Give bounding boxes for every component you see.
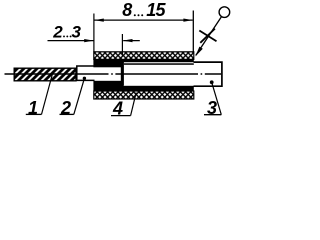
dimension text 2...3 xyxy=(52,22,81,41)
centerline (dash-dot axis) xyxy=(5,73,222,75)
extension line C (right, x=193.3) xyxy=(192,11,194,52)
svg-text:15: 15 xyxy=(146,0,166,20)
callout 3 xyxy=(204,80,221,117)
extension line B (x=122.4) xyxy=(121,34,123,56)
svg-text:3: 3 xyxy=(72,22,82,41)
tube wall black section top xyxy=(93,59,193,67)
tube 3 right exposed part xyxy=(194,62,222,86)
conductor end wall (thick bar) xyxy=(121,59,124,85)
extension line A (left, x=93.9) xyxy=(93,14,95,52)
svg-text:8: 8 xyxy=(122,0,132,20)
conductor 2 (bare wire end rect) xyxy=(77,66,95,80)
callout 1 xyxy=(26,75,53,118)
callout 4 xyxy=(111,93,136,119)
dimension 8...15 line with arrows xyxy=(94,19,193,22)
wire 1 (insulated cable, hatched) xyxy=(14,68,76,81)
sleeve 4 bottom band (crosshatched) xyxy=(94,91,194,99)
solder symbol circle xyxy=(219,7,230,18)
sleeve 4 top band (crosshatched) xyxy=(94,52,194,60)
dimension 2...3 line with arrows xyxy=(48,39,140,42)
callout 2 xyxy=(60,77,87,118)
dimension text 8...15 xyxy=(122,0,166,20)
solder leader with arrow xyxy=(195,17,221,57)
svg-text:2: 2 xyxy=(52,22,63,41)
solder cross strokes xyxy=(199,29,216,43)
tube wall black section bottom xyxy=(93,81,193,91)
